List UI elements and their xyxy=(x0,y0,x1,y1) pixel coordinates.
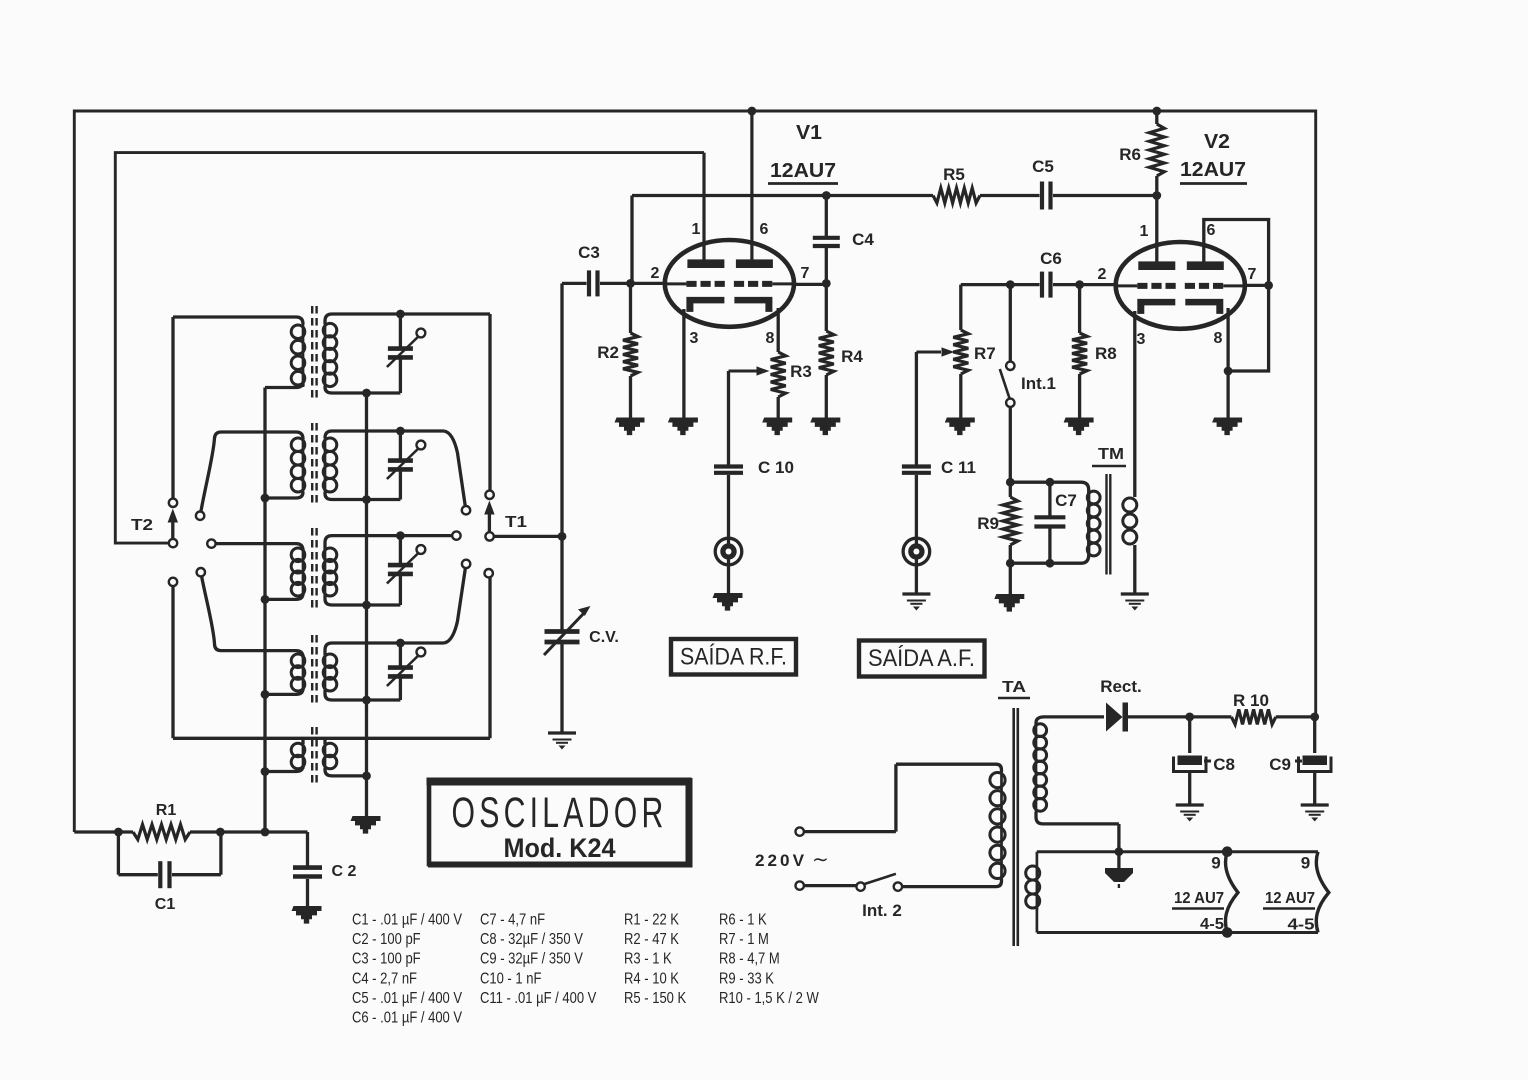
svg-text:C6: C6 xyxy=(1040,249,1062,268)
svg-text:TM: TM xyxy=(1098,446,1124,463)
svg-text:9: 9 xyxy=(1301,854,1310,873)
svg-text:C1 - .01 µF / 400 V: C1 - .01 µF / 400 V xyxy=(352,912,463,929)
svg-text:C10 - 1 nF: C10 - 1 nF xyxy=(480,970,542,987)
svg-text:R6 - 1 K: R6 - 1 K xyxy=(719,912,767,929)
svg-text:R8: R8 xyxy=(1095,344,1117,363)
svg-text:Int. 2: Int. 2 xyxy=(862,901,902,920)
svg-text:R4 - 10 K: R4 - 10 K xyxy=(624,970,679,987)
svg-text:Mod. K24: Mod. K24 xyxy=(504,833,616,863)
svg-text:R7 - 1 M: R7 - 1 M xyxy=(719,931,769,948)
svg-text:C6 - .01 µF / 400 V: C6 - .01 µF / 400 V xyxy=(352,1010,463,1027)
svg-text:C7: C7 xyxy=(1055,491,1077,510)
svg-text:12AU7: 12AU7 xyxy=(1180,159,1246,181)
svg-text:R1 - 22 K: R1 - 22 K xyxy=(624,912,679,929)
svg-text:C3: C3 xyxy=(578,243,600,262)
svg-text:R5 - 150 K: R5 - 150 K xyxy=(624,990,687,1007)
svg-text:C2 - 100 pF: C2 - 100 pF xyxy=(352,931,421,948)
svg-text:Rect.: Rect. xyxy=(1100,677,1142,696)
svg-text:6: 6 xyxy=(1207,222,1216,239)
svg-text:C8 - 32µF / 350 V: C8 - 32µF / 350 V xyxy=(480,931,583,948)
svg-text:C11 - .01 µF / 400 V: C11 - .01 µF / 400 V xyxy=(480,990,597,1007)
svg-text:R 10: R 10 xyxy=(1233,691,1269,710)
svg-text:T1: T1 xyxy=(505,514,527,531)
svg-text:1: 1 xyxy=(1140,223,1149,240)
svg-text:12 AU7: 12 AU7 xyxy=(1265,890,1315,907)
svg-text:TA: TA xyxy=(1002,679,1027,696)
svg-text:∼: ∼ xyxy=(812,849,829,871)
svg-text:V2: V2 xyxy=(1204,131,1230,153)
svg-text:C1: C1 xyxy=(155,896,176,913)
svg-text:2: 2 xyxy=(1098,266,1107,283)
svg-text:4-5: 4-5 xyxy=(1288,917,1315,934)
svg-text:4-5: 4-5 xyxy=(1200,916,1224,933)
svg-text:R1: R1 xyxy=(156,802,177,819)
svg-text:3: 3 xyxy=(690,330,699,347)
svg-text:7: 7 xyxy=(801,265,810,282)
svg-text:R4: R4 xyxy=(841,347,863,366)
svg-text:R9: R9 xyxy=(977,514,999,533)
svg-text:2: 2 xyxy=(651,265,660,282)
svg-text:C9: C9 xyxy=(1269,755,1291,774)
svg-text:12AU7: 12AU7 xyxy=(770,160,836,182)
svg-text:R2: R2 xyxy=(597,343,619,362)
svg-text:R10 - 1,5 K / 2 W: R10 - 1,5 K / 2 W xyxy=(719,990,819,1007)
svg-text:R5: R5 xyxy=(943,165,965,184)
svg-text:Int.1: Int.1 xyxy=(1021,374,1056,393)
svg-text:R2 - 47 K: R2 - 47 K xyxy=(624,931,679,948)
svg-text:V1: V1 xyxy=(796,122,822,144)
svg-text:C8: C8 xyxy=(1213,755,1235,774)
svg-text:SAÍDA A.F.: SAÍDA A.F. xyxy=(868,645,975,672)
svg-text:9: 9 xyxy=(1211,854,1220,873)
svg-text:R9 - 33 K: R9 - 33 K xyxy=(719,970,774,987)
svg-text:R8 - 4,7 M: R8 - 4,7 M xyxy=(719,951,780,968)
svg-text:R3 - 1 K: R3 - 1 K xyxy=(624,951,672,968)
svg-text:8: 8 xyxy=(766,330,775,347)
svg-text:OSCILADOR: OSCILADOR xyxy=(452,789,668,837)
svg-text:R3: R3 xyxy=(790,362,812,381)
svg-text:R7: R7 xyxy=(974,344,996,363)
svg-text:1: 1 xyxy=(692,221,701,238)
svg-text:C5: C5 xyxy=(1032,157,1054,176)
svg-text:SAÍDA R.F.: SAÍDA R.F. xyxy=(680,644,787,671)
svg-text:C 10: C 10 xyxy=(758,458,794,477)
svg-text:T2: T2 xyxy=(131,517,153,534)
svg-text:R6: R6 xyxy=(1119,145,1141,164)
svg-text:12 AU7: 12 AU7 xyxy=(1174,890,1224,907)
svg-text:7: 7 xyxy=(1248,266,1257,283)
svg-text:220V: 220V xyxy=(755,851,807,870)
svg-text:C3 - 100 pF: C3 - 100 pF xyxy=(352,951,421,968)
svg-text:6: 6 xyxy=(760,221,769,238)
svg-text:C 2: C 2 xyxy=(332,863,357,880)
svg-text:3: 3 xyxy=(1137,331,1146,348)
svg-text:C9 - 32µF / 350 V: C9 - 32µF / 350 V xyxy=(480,951,583,968)
svg-text:8: 8 xyxy=(1214,330,1223,347)
svg-text:C 11: C 11 xyxy=(941,458,976,477)
svg-text:C4 - 2,7 nF: C4 - 2,7 nF xyxy=(352,970,417,987)
svg-text:C4: C4 xyxy=(852,230,874,249)
svg-text:C7 - 4,7 nF: C7 - 4,7 nF xyxy=(480,912,545,929)
svg-text:C5 - .01 µF / 400 V: C5 - .01 µF / 400 V xyxy=(352,990,463,1007)
svg-text:C.V.: C.V. xyxy=(589,629,619,646)
